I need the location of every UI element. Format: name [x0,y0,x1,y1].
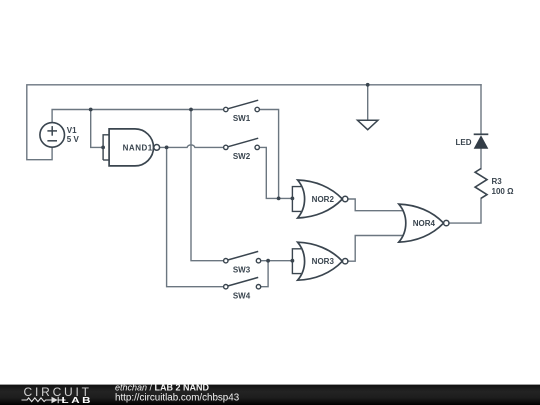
wire LED top [480,85,482,135]
wire NOR4 output to R3 [449,198,481,223]
svg-text:100 Ω: 100 Ω [492,187,515,196]
svg-text:NOR4: NOR4 [413,219,436,228]
nor gate NOR3 input bracket [292,249,301,274]
svg-text:NAND1: NAND1 [123,143,153,152]
nor gate NOR4 [399,204,449,242]
nor gate NOR2 [298,180,348,218]
wire NAND1 output to SW2 with hop [160,145,224,147]
logo resistor-diode symbol [22,397,66,403]
svg-text:V1: V1 [67,126,77,135]
junction dots [89,83,370,263]
wire LED to R3 [480,148,482,169]
wire NOR3 output to NOR4 bottom input [348,236,405,262]
svg-text:NOR3: NOR3 [312,257,335,266]
svg-text:ethchan / LAB 2 NAND: ethchan / LAB 2 NAND [115,383,210,393]
svg-text:SW4: SW4 [233,291,251,300]
nor gate NOR2 input bracket [292,187,301,212]
nor gate NOR3 [298,242,348,280]
wire SW4 output up [261,261,268,287]
svg-text:SW3: SW3 [233,265,251,274]
wire SW3 output to NOR3 input node [261,260,293,262]
wire down to SW3 [191,110,224,261]
switch SW1 [224,100,260,112]
wire SW1 output down [259,110,278,199]
wire to NAND1 inputs [91,110,103,148]
svg-text:SW2: SW2 [233,152,251,161]
wire NOR2 output to NOR4 top input [348,199,405,211]
switch SW3 [224,251,261,263]
svg-text:5 V: 5 V [67,135,80,144]
svg-text:http://circuitlab.com/chbsp43: http://circuitlab.com/chbsp43 [115,393,240,404]
wire SW2 output down to NOR2 input node [259,147,292,198]
svg-text:R3: R3 [492,177,503,186]
ground [358,120,378,129]
svg-text:LED: LED [456,138,472,147]
wire NAND1 output down to SW4 [167,147,224,286]
voltage source V1 [40,123,65,148]
svg-text:LAB: LAB [62,396,94,405]
nand gate NAND1 [103,129,160,166]
svg-text:NOR2: NOR2 [312,195,335,204]
footer bar [0,385,540,405]
svg-text:SW1: SW1 [233,114,251,123]
wire V1 plus rail [52,110,224,123]
wire ground stem [367,85,369,121]
switch SW2 [224,138,260,149]
resistor R3 [475,169,487,199]
wire top rail [27,85,481,160]
LED [474,134,489,148]
switch SW4 [224,277,261,289]
